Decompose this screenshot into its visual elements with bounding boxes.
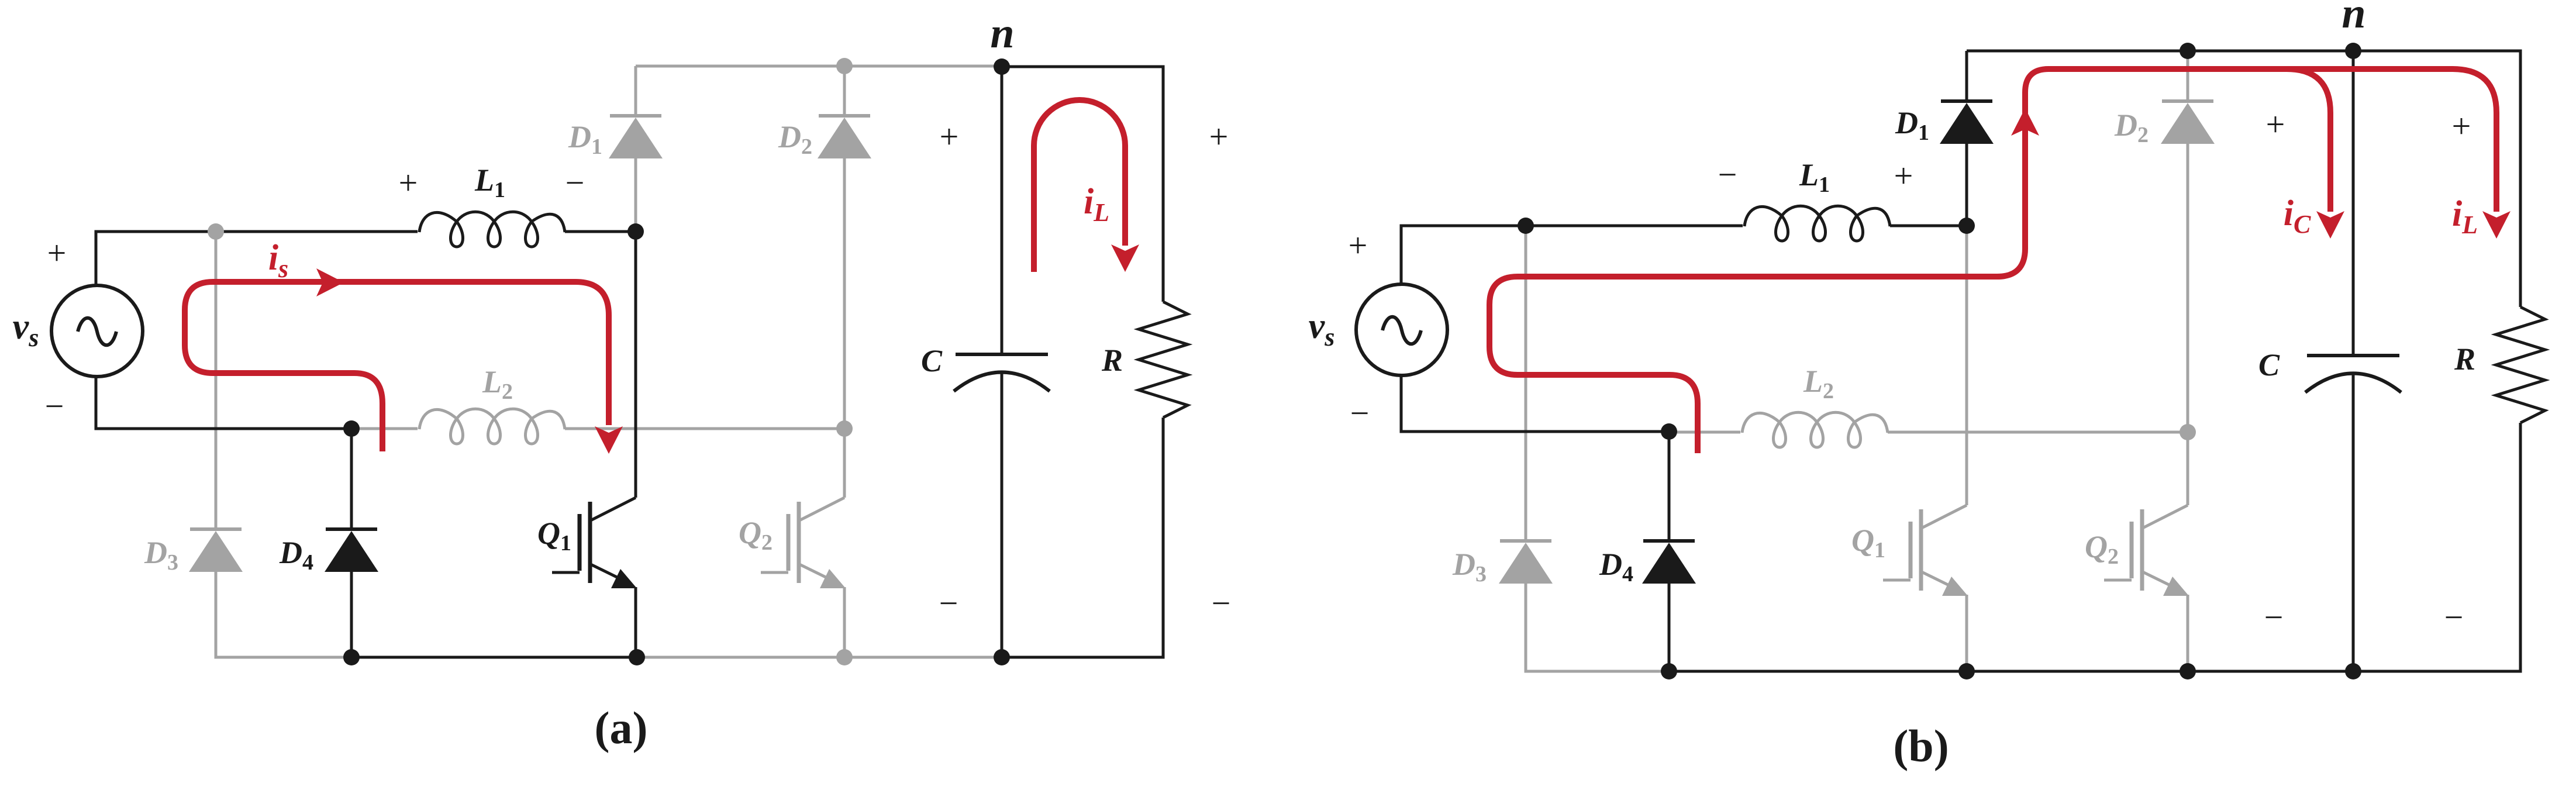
svg-text:+: + (47, 234, 67, 272)
svg-text:−: − (1350, 394, 1370, 432)
svg-text:(b): (b) (1893, 720, 1949, 771)
svg-text:R: R (2454, 341, 2475, 377)
svg-text:−: − (1718, 156, 1737, 194)
svg-text:(a): (a) (595, 702, 648, 753)
svg-text:+: + (399, 164, 418, 202)
svg-text:+: + (1894, 157, 1913, 195)
svg-text:C: C (2258, 347, 2280, 382)
svg-text:+: + (1349, 226, 1368, 264)
svg-text:−: − (565, 164, 585, 202)
svg-text:+: + (940, 118, 959, 156)
svg-text:C: C (921, 343, 943, 378)
svg-text:−: − (2444, 598, 2464, 636)
svg-text:+: + (1209, 118, 1229, 156)
svg-text:−: − (2264, 598, 2284, 636)
svg-text:n: n (990, 9, 1014, 57)
svg-text:R: R (1101, 343, 1123, 378)
svg-text:−: − (45, 387, 64, 425)
svg-text:−: − (1212, 584, 1231, 622)
svg-text:−: − (939, 584, 958, 622)
svg-text:n: n (2341, 0, 2365, 37)
svg-text:+: + (2266, 105, 2285, 143)
svg-text:+: + (2452, 107, 2471, 145)
